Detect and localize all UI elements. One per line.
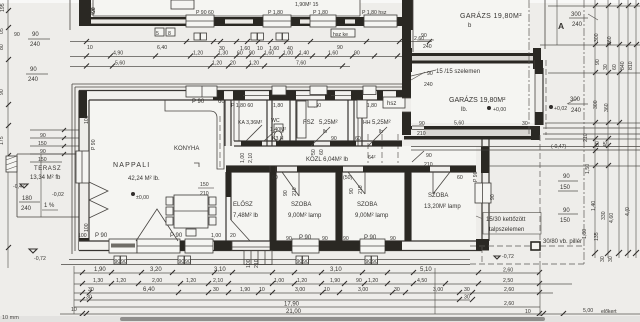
slope 1% arrow	[42, 203, 58, 210]
partition KOA|WC	[267, 100, 272, 146]
dining chair bottom	[186, 229, 196, 236]
window small rooms b	[296, 86, 327, 96]
right tick line y123	[545, 120, 640, 125]
svg-text:90: 90	[40, 133, 46, 139]
bedroom1 window	[292, 239, 319, 253]
svg-text:150: 150	[200, 182, 209, 188]
bedroom3 door swing	[433, 172, 450, 194]
partition FSZ|HH	[348, 100, 362, 146]
dimension chain row C y68	[70, 61, 350, 69]
svg-text:lb.: lb.	[461, 107, 468, 113]
svg-text:P 1,80: P 1,80	[313, 10, 328, 16]
svg-text:90: 90	[563, 174, 570, 180]
left outer wall	[79, 91, 89, 251]
WC fixtures	[274, 124, 283, 141]
wall kitchen | KOA	[225, 100, 231, 146]
scrollbar track	[0, 316, 640, 322]
svg-text:2,60: 2,60	[504, 287, 514, 293]
svg-text:SZOBA: SZOBA	[291, 202, 311, 208]
label 90/210 garage door	[417, 121, 426, 137]
left vertical dimension chain	[0, 0, 11, 268]
svg-text:P 90: P 90	[95, 233, 108, 239]
svg-text:175: 175	[0, 136, 5, 145]
ELOSZ door swing	[231, 220, 250, 241]
svg-text:90: 90	[115, 259, 121, 265]
window hsz box	[383, 97, 405, 108]
svg-text:90: 90	[32, 32, 39, 38]
label 90/210 corridor right	[412, 151, 433, 168]
upper unit eaves line left	[69, 0, 71, 30]
svg-text:7,48M² lb: 7,48M² lb	[233, 213, 259, 219]
right chain line 5	[635, 0, 637, 258]
svg-text:210: 210	[358, 185, 364, 194]
svg-text:FSZ: FSZ	[303, 120, 315, 126]
HH water heater	[357, 100, 367, 118]
dining table	[174, 195, 208, 228]
svg-text:300: 300	[593, 100, 599, 109]
svg-text:3,10: 3,10	[330, 267, 342, 273]
svg-text:60: 60	[237, 51, 243, 57]
svg-text:6,40: 6,40	[143, 287, 155, 293]
svg-text:180: 180	[22, 196, 33, 202]
upper unit window P180 b	[310, 15, 336, 27]
garage left wall upper	[402, 30, 411, 98]
svg-text:1,20: 1,20	[186, 278, 196, 284]
level mark +-0,00 living	[131, 192, 149, 201]
svg-text:10: 10	[525, 309, 531, 315]
svg-text:90: 90	[14, 32, 20, 38]
svg-text:195: 195	[0, 3, 6, 12]
bottom wall window w2	[185, 239, 213, 253]
svg-text:1,00: 1,00	[274, 278, 284, 284]
scrollbar thumb	[120, 317, 545, 321]
pillar axis dashed y246	[470, 245, 531, 247]
svg-text:20: 20	[230, 61, 236, 67]
svg-text:30: 30	[86, 295, 92, 301]
svg-text:30: 30	[88, 287, 94, 293]
svg-text:3,00: 3,00	[295, 287, 305, 293]
svg-text:10: 10	[324, 287, 330, 293]
svg-text:P 90: P 90	[364, 235, 377, 241]
svg-text:TERASZ: TERASZ	[34, 166, 61, 172]
svg-text:P 90: P 90	[91, 139, 97, 150]
svg-text:210: 210	[292, 187, 298, 196]
svg-text:P 1,80 hsz: P 1,80 hsz	[362, 10, 387, 16]
svg-text:1,40M²: 1,40M²	[270, 127, 286, 133]
svg-text:90: 90	[185, 259, 191, 265]
label 300/240 mid right	[568, 97, 588, 114]
dimension line 17,90 y307	[74, 301, 540, 308]
svg-text:1,60: 1,60	[328, 51, 338, 57]
svg-text:P 90 60: P 90 60	[196, 10, 214, 16]
svg-text:30: 30	[608, 256, 614, 262]
svg-text:90: 90	[179, 259, 185, 265]
label 90/240 right of upper wall	[418, 33, 434, 50]
svg-text:HH: HH	[363, 120, 371, 126]
label 90 240 szelemen leader	[411, 71, 433, 88]
svg-text:810: 810	[628, 61, 634, 70]
svg-text:20: 20	[230, 233, 236, 239]
corridor left door labels 1,00 2,10	[240, 153, 254, 163]
HH door swing	[368, 127, 387, 146]
dashed axis garage right	[528, 0, 530, 135]
svg-text:(-0,47): (-0,47)	[551, 144, 567, 150]
garage left wall lower	[402, 112, 411, 135]
svg-text:2,00: 2,00	[152, 278, 162, 284]
bottom wall window w1 dark sill	[109, 239, 137, 253]
svg-text:90: 90	[421, 33, 427, 39]
dimension chain row A y42	[70, 33, 432, 52]
svg-text:5,00: 5,00	[583, 308, 593, 314]
top wall pier 3b	[233, 91, 245, 101]
svg-text:90: 90	[349, 188, 355, 194]
right wall window	[475, 183, 491, 203]
svg-text:90: 90	[356, 278, 362, 284]
pier dims boxed row	[114, 256, 378, 265]
svg-text:4,90: 4,90	[113, 51, 123, 57]
upper unit garage party wall	[402, 0, 413, 30]
garage top wall	[412, 53, 533, 64]
ticks on eaves lines	[593, 143, 611, 153]
svg-text:1,00: 1,00	[240, 153, 246, 163]
dimension chain bottom row4 y299	[74, 295, 475, 303]
extension line y166 right	[489, 163, 640, 168]
svg-text:90: 90	[331, 136, 337, 142]
window P180 small rooms a	[243, 95, 269, 97]
svg-text:3,00: 3,00	[433, 287, 443, 293]
svg-text:WC: WC	[271, 118, 280, 124]
room interior fills	[89, 0, 535, 241]
right wall pier top	[481, 146, 489, 173]
upper unit window P90	[186, 15, 214, 27]
bottom wall window w1b	[137, 239, 180, 253]
svg-text:80: 80	[0, 44, 5, 50]
svg-text:NAPPALI: NAPPALI	[113, 162, 150, 169]
svg-text:45: 45	[603, 141, 609, 147]
svg-text:5,25M²: 5,25M²	[372, 120, 391, 126]
label 180/240	[19, 196, 40, 212]
svg-text:135: 135	[594, 232, 600, 241]
svg-text:240: 240	[423, 44, 432, 50]
level mark +0,00 garage	[487, 106, 506, 113]
svg-text:P 90: P 90	[192, 99, 205, 105]
svg-text:3,10: 3,10	[214, 267, 226, 273]
living door V swing	[136, 209, 178, 241]
svg-text:2,60: 2,60	[503, 268, 513, 274]
window box above pier4	[272, 86, 286, 95]
svg-text:60: 60	[319, 149, 325, 155]
svg-text:30: 30	[394, 287, 400, 293]
corner mark kitchen	[194, 163, 199, 167]
svg-text:90: 90	[91, 7, 97, 13]
left window-height stack 90/150/90/150	[30, 128, 79, 163]
top wall band	[79, 91, 402, 101]
svg-text:15/30 kettőzött: 15/30 kettőzött	[486, 217, 526, 223]
svg-text:K3,H: K3,H	[272, 136, 284, 142]
garage top wall left cap	[404, 48, 412, 72]
top wall pier 5	[325, 91, 335, 101]
wall bedroom2 | bedroom3	[405, 172, 411, 241]
left wall window	[76, 151, 89, 183]
svg-text:150: 150	[560, 218, 571, 224]
dimension chain bottom row1 y268	[74, 267, 542, 275]
dimension chain bottom row3 y290	[74, 287, 553, 295]
svg-text:A: A	[558, 21, 564, 31]
svg-text:30: 30	[603, 64, 609, 70]
svg-text:P 1,80: P 1,80	[268, 10, 283, 16]
wall bedroom1 | bedroom2	[336, 172, 342, 241]
label 90/240 upper-left	[28, 32, 50, 48]
kitchen counter dash	[219, 116, 221, 168]
svg-text:150: 150	[38, 141, 47, 147]
svg-text:GARÁZS 19,80M²: GARÁZS 19,80M²	[449, 95, 506, 104]
svg-text:4,60: 4,60	[609, 213, 615, 223]
svg-text:90: 90	[286, 236, 292, 242]
svg-text:90: 90	[343, 236, 349, 242]
svg-text:4,(0: 4,(0	[625, 207, 631, 216]
svg-text:90: 90	[419, 121, 425, 127]
bedroom1 door swing	[282, 172, 299, 196]
svg-text:1,00: 1,00	[283, 51, 293, 57]
terrace planter hatched	[6, 156, 17, 172]
svg-text:240: 240	[21, 206, 32, 212]
svg-text:GARÁZS 19,80M²: GARÁZS 19,80M²	[460, 11, 522, 20]
svg-text:30: 30	[213, 287, 219, 293]
svg-text:1 %: 1 %	[44, 203, 55, 209]
entry porch steps	[244, 251, 272, 265]
svg-text:90: 90	[427, 71, 433, 77]
svg-text:240: 240	[424, 82, 433, 88]
corridor door labels 50 60	[311, 149, 325, 155]
level mark +0,02	[549, 98, 578, 112]
level mark -0,47	[13, 184, 28, 190]
label 15/30 kettozott talpszelemen	[476, 213, 541, 235]
upper garage side lines	[413, 0, 545, 52]
bedroom2 window	[360, 239, 385, 253]
svg-text:-0,72: -0,72	[502, 254, 514, 260]
right house dims 90 150 90 150	[558, 174, 578, 224]
svg-text:13,20M² lamp: 13,20M² lamp	[424, 204, 461, 210]
label 10 mm status	[2, 315, 19, 321]
svg-text:ELŐSZ: ELŐSZ	[233, 201, 253, 208]
svg-text:KA 3,36M²: KA 3,36M²	[238, 120, 262, 126]
svg-text:7,60: 7,60	[296, 61, 306, 67]
svg-text:60: 60	[457, 175, 463, 181]
svg-text:KÖZL 6,04M² lb: KÖZL 6,04M² lb	[306, 156, 349, 163]
level mark -0,72 lower left	[29, 249, 46, 262]
concrete pillar 30/30	[531, 242, 540, 250]
svg-text:90: 90	[0, 89, 5, 95]
svg-text:talpszelemen: talpszelemen	[489, 227, 524, 233]
svg-text:1,80: 1,80	[582, 229, 588, 239]
svg-text:P 90: P 90	[473, 171, 479, 182]
svg-text:90: 90	[322, 236, 328, 242]
svg-text:1,20: 1,20	[116, 278, 126, 284]
entry door opening	[232, 241, 270, 251]
svg-text:240: 240	[571, 108, 582, 114]
FSZ bathtub	[297, 101, 306, 138]
wall corridor | bedrooms	[226, 166, 476, 172]
svg-text:5,25M²: 5,25M²	[319, 120, 338, 126]
svg-text:60: 60	[355, 136, 361, 142]
svg-text:1,20: 1,20	[249, 61, 259, 67]
svg-text:17,90: 17,90	[284, 302, 300, 308]
svg-text:42,24 M² lb.: 42,24 M² lb.	[128, 176, 160, 182]
svg-text:240: 240	[28, 77, 39, 83]
upper unit bottom wall thick band	[79, 17, 404, 26]
svg-text:hsz ke: hsz ke	[333, 32, 348, 38]
svg-text:30: 30	[600, 256, 606, 262]
svg-text:1,40: 1,40	[591, 201, 597, 211]
bottom vertical connector x82	[73, 266, 75, 314]
upper unit window P180 a	[263, 15, 291, 27]
svg-text:21,00: 21,00	[286, 309, 302, 315]
svg-text:SZOBA: SZOBA	[357, 202, 377, 208]
corridor dashed service lines	[368, 134, 398, 163]
bottom wall pier e	[319, 241, 360, 251]
right tick line y45	[540, 42, 640, 47]
svg-text:-0,02: -0,02	[52, 192, 64, 198]
svg-text:90: 90	[390, 236, 396, 242]
svg-text:60: 60	[595, 141, 601, 147]
svg-text:előkert: előkert	[601, 309, 617, 315]
upper room inner lines	[93, 0, 360, 16]
svg-text:2,60: 2,60	[504, 301, 514, 307]
window small rooms d	[363, 86, 376, 95]
label 15/15 szelemen	[411, 69, 480, 76]
svg-text:300: 300	[571, 12, 582, 18]
terrace slab outline	[17, 154, 79, 217]
svg-text:05: 05	[0, 28, 5, 34]
partition WC|FSZ	[290, 100, 296, 146]
svg-text:10: 10	[257, 46, 263, 52]
svg-text:100: 100	[246, 259, 252, 268]
svg-text:9,00M² lamp: 9,00M² lamp	[355, 213, 389, 219]
svg-text:330: 330	[601, 211, 607, 220]
svg-text:6,40: 6,40	[157, 45, 167, 51]
bottom wall pier f	[385, 241, 402, 251]
eaves lines right of house	[411, 147, 640, 151]
wall NAPPALI | ELOSZ	[226, 172, 231, 241]
x-mark corner	[87, 9, 94, 14]
right column aux line	[556, 0, 558, 45]
svg-text:9,00M² lamp: 9,00M² lamp	[288, 213, 322, 219]
left edge rotated labels	[0, 3, 20, 38]
svg-text:30/80 vb. pillér: 30/80 vb. pillér	[543, 239, 582, 245]
svg-text:±0,00: ±0,00	[136, 195, 149, 201]
svg-text:210: 210	[417, 131, 426, 137]
svg-text:+0,02: +0,02	[554, 106, 567, 112]
bottom wall band	[79, 241, 488, 251]
top wall pier 8	[396, 91, 402, 101]
kitchen window P90 top	[186, 86, 217, 97]
svg-text:1,20: 1,20	[193, 51, 203, 57]
svg-text:2,10: 2,10	[213, 278, 223, 284]
dining chairs right	[209, 197, 216, 225]
top wall pier 4	[269, 91, 296, 101]
tick cluster chains bottom	[592, 250, 639, 262]
svg-text:240: 240	[572, 22, 583, 28]
bottom wall pier c	[214, 241, 232, 251]
svg-text:1,20: 1,20	[212, 61, 222, 67]
svg-text:100: 100	[84, 115, 90, 124]
window small rooms c midline	[331, 95, 351, 97]
svg-text:1,90: 1,90	[94, 267, 106, 273]
garage right wall with door opening	[535, 60, 543, 125]
WC door swing	[264, 130, 276, 141]
svg-text:-0,47: -0,47	[13, 184, 25, 190]
right outer wall below garage	[482, 136, 489, 251]
svg-text:90: 90	[121, 259, 127, 265]
svg-text:8: 8	[168, 31, 171, 37]
svg-text:150: 150	[560, 185, 571, 191]
svg-text:5,60: 5,60	[115, 61, 125, 67]
svg-text:1,80: 1,80	[273, 103, 283, 109]
svg-text:90: 90	[563, 208, 570, 214]
svg-text:210: 210	[254, 259, 260, 268]
svg-text:1,90: 1,90	[240, 287, 250, 293]
svg-text:90: 90	[426, 153, 432, 159]
dashed eaves corner bottom right	[470, 247, 584, 264]
svg-text:300: 300	[570, 97, 581, 103]
svg-text:15 /15 szelemen: 15 /15 szelemen	[436, 69, 480, 75]
svg-text:90: 90	[249, 51, 255, 57]
svg-text:90: 90	[366, 259, 372, 265]
leader top	[588, 14, 598, 20]
right chain line 1	[594, 0, 596, 258]
upper unit kitchen counter	[171, 0, 194, 9]
left wall pier top	[79, 91, 87, 118]
svg-text:360: 360	[604, 103, 610, 112]
svg-text:3,20: 3,20	[150, 267, 162, 273]
svg-text:10: 10	[87, 45, 93, 51]
svg-text:64²: 64²	[368, 155, 376, 161]
kitchen counter L	[165, 100, 224, 169]
svg-text:1,30: 1,30	[93, 278, 103, 284]
svg-text:90: 90	[372, 259, 378, 265]
corridor top wall	[234, 141, 402, 146]
svg-text:30: 30	[464, 295, 470, 301]
svg-text:1,50: 1,50	[585, 164, 591, 174]
svg-text:30: 30	[522, 121, 528, 127]
svg-text:240: 240	[30, 42, 41, 48]
svg-text:1,90: 1,90	[330, 278, 340, 284]
svg-text:210: 210	[583, 133, 589, 142]
svg-text:5,60: 5,60	[454, 121, 464, 127]
svg-text:60: 60	[272, 175, 278, 181]
left wall bottom corner	[79, 238, 89, 251]
wall ELOSZ | bedroom1	[270, 166, 276, 241]
rotated label 100/210 entry	[246, 259, 260, 268]
svg-text:2,50: 2,50	[503, 278, 513, 284]
svg-text:840: 840	[620, 61, 626, 70]
french door swing triangles	[89, 182, 108, 218]
upper unit left wall stub	[79, 0, 91, 26]
svg-text:90: 90	[283, 190, 289, 196]
dimension chain row B y58	[70, 51, 432, 59]
garage bottom wall	[404, 126, 540, 140]
dining chairs left	[166, 197, 173, 225]
svg-text:13,34 M² fb: 13,34 M² fb	[30, 175, 61, 181]
svg-text:+0,00: +0,00	[493, 107, 506, 113]
svg-text:5: 5	[156, 31, 159, 37]
bottom wall pier b	[180, 241, 185, 251]
dashed axis right long	[583, 0, 585, 264]
dashed axis mid	[545, 60, 547, 135]
bedroom2 door swing	[348, 172, 365, 194]
bottom vertical connector x435	[434, 268, 436, 314]
label 150/210 living	[198, 182, 214, 197]
